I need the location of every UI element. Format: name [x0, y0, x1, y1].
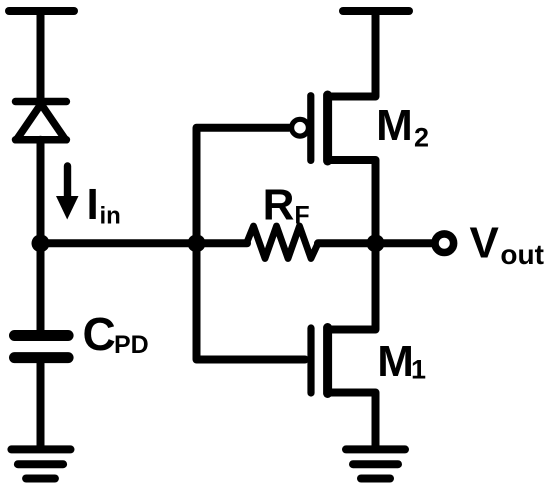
svg-text:F: F	[294, 202, 309, 230]
power rail bar (top VDD)	[343, 7, 409, 15]
svg-text:2: 2	[414, 123, 429, 153]
ground (right, under M1)	[346, 449, 405, 478]
node C (output junction dot)	[367, 234, 385, 252]
svg-text:1: 1	[411, 355, 426, 385]
channel bar	[323, 328, 332, 394]
label Iin	[87, 180, 121, 230]
channel bar	[323, 95, 332, 161]
label RF	[263, 180, 310, 229]
transistor M1 (NMOS)	[311, 243, 376, 447]
svg-text:PD: PD	[114, 331, 149, 359]
svg-text:C: C	[83, 308, 116, 360]
svg-text:R: R	[263, 180, 295, 229]
transistor M2 (PMOS)	[292, 11, 376, 243]
wire: photodiode anode down to node A	[37, 140, 45, 244]
svg-text:M: M	[377, 337, 414, 386]
node B (gate/feedback junction dot)	[188, 234, 206, 252]
label Vout	[470, 219, 544, 271]
label M1	[377, 337, 426, 386]
node A (input node junction dot)	[32, 234, 50, 252]
wire: node A to node B (main input wire)	[41, 239, 248, 247]
source lead up to VDD	[328, 11, 376, 97]
wire: resistor to node C	[318, 239, 376, 247]
svg-text:I: I	[87, 180, 99, 229]
wire: node A down to capacitor CPD	[37, 243, 45, 333]
drain lead up to node C	[328, 243, 376, 329]
label M2	[376, 101, 429, 153]
drain lead down to node C	[328, 160, 376, 243]
photodiode D1	[16, 102, 67, 140]
gate bubble	[292, 119, 309, 136]
wire: node C to output terminal	[376, 239, 434, 247]
svg-text:M: M	[376, 101, 413, 150]
wire: left VDD to photodiode cathode	[37, 11, 45, 100]
gate bar	[307, 96, 314, 161]
resistor RF zigzag	[247, 226, 319, 259]
source lead down to ground	[328, 393, 376, 448]
svg-text:V: V	[470, 219, 500, 268]
label CPD	[83, 308, 149, 360]
capacitor CPD	[15, 336, 69, 358]
current arrow Iin	[56, 166, 79, 220]
power rail bar (left VDD)	[9, 7, 74, 15]
gate bar	[307, 328, 314, 393]
output terminal (open circle)	[435, 234, 454, 253]
wire: capacitor to left ground	[37, 358, 45, 447]
wire: feedback vertical (node B up to M2 gate, down to M1 gate)	[197, 128, 306, 360]
ground (left)	[11, 449, 70, 478]
svg-text:out: out	[500, 239, 544, 270]
svg-text:in: in	[100, 203, 121, 230]
